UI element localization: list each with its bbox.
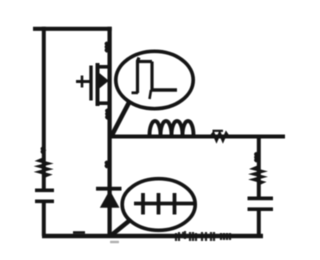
transistor Q1 drain connect <box>98 65 110 69</box>
label artifact left rail <box>42 148 44 154</box>
waveform pulse foot <box>132 91 139 94</box>
watermark text blobs on bottom wire <box>176 231 230 241</box>
waveform bar 1 <box>141 193 145 215</box>
capacitor C2 bottom plate <box>248 207 274 211</box>
diode D1 cathode bar <box>96 187 122 191</box>
capacitor C2 top plate <box>248 197 274 201</box>
wire middle horizontal (inductor branch) <box>110 135 285 139</box>
diode D1 triangle <box>100 190 120 208</box>
waveform pulse bottom <box>151 88 178 91</box>
transistor Q1 gate terminal tick <box>81 76 84 88</box>
inductor L1 coil <box>150 121 194 135</box>
resistor R3 (left rail) <box>39 159 49 177</box>
wire bottom horizontal <box>42 234 263 238</box>
transistor Q1 arrow <box>99 73 109 89</box>
wire right rail upper segment <box>257 136 261 197</box>
capacitor C1 top plate <box>35 189 54 193</box>
resistor R1 (series, on middle wire) <box>213 130 224 132</box>
waveform pulse rising edge <box>138 58 140 94</box>
waveform bar 3 <box>173 193 177 215</box>
wire left rail <box>42 27 46 190</box>
waveform pulse tick <box>150 90 152 99</box>
transistor Q1 gate bar <box>89 66 92 101</box>
transistor Q1 channel bar <box>96 63 100 106</box>
callout balloon 1 tail <box>112 103 129 136</box>
waveform bar 2 <box>157 193 161 215</box>
resistor R2 (right rail) <box>253 167 263 185</box>
callout balloon 2 (diode current waveform) <box>122 179 195 231</box>
wire right rail lower segment <box>257 210 261 236</box>
waveform axis line <box>134 202 194 206</box>
callout balloon 2 tail <box>111 221 130 236</box>
waveform pulse top <box>136 60 152 63</box>
watermark smudge below tail junction <box>110 241 119 243</box>
label artifact near source node <box>106 110 108 119</box>
label artifact tick on bottom wire <box>73 231 85 234</box>
label artifact above diode <box>106 162 108 168</box>
capacitor C1 bottom plate <box>35 200 54 204</box>
waveform pulse falling edge <box>150 62 153 91</box>
wire left rail lower segment <box>42 203 46 237</box>
callout balloon 1 (gate pulse waveform) <box>116 51 193 108</box>
wire top horizontal <box>33 27 112 31</box>
label artifact near drain <box>106 43 108 52</box>
label artifact right rail <box>255 153 257 162</box>
transistor Q1 gate lead <box>76 80 90 83</box>
wire switch rail (drain-source vertical) <box>107 27 111 236</box>
transistor Q1 source connect <box>98 101 110 105</box>
